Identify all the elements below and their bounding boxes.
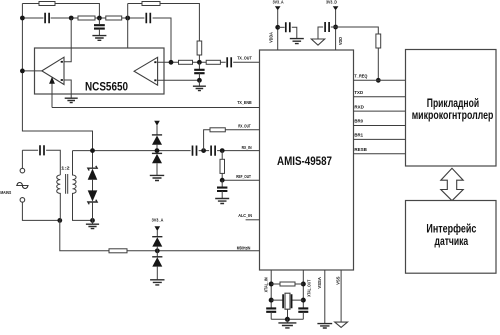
zener D2 (cathode down) [92, 180, 94, 191]
svg-text:NCS5650: NCS5650 [85, 82, 128, 94]
svg-text:VSSA: VSSA [317, 277, 322, 289]
svg-text:Интерфейс: Интерфейс [426, 224, 476, 236]
supply arrow 3V3_D [333, 6, 339, 10]
sensor interface box [406, 201, 497, 274]
wire row y18 [22, 18, 171, 62]
node dot secondary bottom / zener gnd [90, 218, 95, 223]
wire XTAL_IN [270, 270, 272, 308]
svg-text:REF_OUT: REF_OUT [236, 174, 251, 179]
resistor R11 (T_REQ pull-up) [376, 34, 381, 48]
crystal X1 [271, 299, 303, 301]
wire VSS [340, 270, 342, 322]
bidirectional arrow between boxes [441, 168, 463, 200]
NCS5650 box [35, 48, 165, 94]
node dot primary bottom [57, 218, 62, 223]
capacitor C9 (REF to gnd) [221, 180, 223, 187]
diode D5 (clamp up) [156, 231, 158, 237]
node dot rail/output [20, 69, 25, 74]
transformer T1 core [66, 174, 68, 194]
svg-text:микрокогнтроллер: микрокогнтроллер [412, 110, 494, 122]
supply arrow 3V3_A [275, 6, 281, 10]
wire T_REQ [354, 79, 406, 81]
resistor R7 (to TX coupling cap) [206, 60, 220, 64]
svg-text:BR0: BR0 [354, 119, 363, 124]
transformer T1 primary coil [57, 175, 61, 220]
ground at U1B bottom node [198, 80, 200, 86]
wire U1A output to rail [22, 70, 41, 72]
node dot row/opamp2 output [125, 16, 130, 21]
op-amp U1B (right) [134, 57, 158, 85]
svg-text:датчика: датчика [435, 236, 469, 248]
svg-text:TX_ENB: TX_ENB [237, 100, 252, 105]
wire feedback loop stage2 [128, 4, 200, 72]
ground triangle under VSS [335, 322, 348, 327]
node dot rail/RX [90, 148, 95, 153]
diode D6 (clamp down) [156, 251, 158, 257]
wire XTAL_OUT [302, 270, 304, 308]
wire VDD to pull-up [336, 27, 379, 34]
node dot rail/row [20, 16, 25, 21]
wire C4 to chip TX_OUT [233, 61, 259, 63]
wire BR0 [354, 125, 406, 127]
resistor R3 [106, 16, 122, 20]
node dot REF_OUT [220, 178, 225, 183]
ground under C10 [290, 39, 304, 44]
svg-text:ALC_IN: ALC_IN [238, 213, 252, 218]
wire U1B top input row [158, 61, 226, 63]
resistor R10 (M50Hz) [109, 249, 127, 253]
capacitor C7 (series RX) [193, 146, 197, 156]
node dot VDDA [275, 25, 280, 30]
capacitor C1 (series, row) [45, 13, 49, 23]
MAINS source terminal top [20, 168, 25, 173]
wire ALC_IN stub [246, 219, 260, 221]
wire VDD [335, 10, 337, 50]
node dots xtal top [269, 282, 274, 287]
capacitor C8 (series RX) [211, 146, 215, 156]
node dot REF tap [220, 148, 225, 153]
capacitor C12 (xtal left) [266, 308, 276, 311]
node dot row middle [97, 16, 102, 21]
capacitor C13 (xtal right) [298, 308, 308, 311]
wire MAINS bottom [22, 202, 59, 220]
node dot row/opamp1 input [69, 16, 74, 21]
transformer T1 secondary coil [73, 151, 93, 221]
capacitor C5 (node A to ground wire) [198, 62, 200, 69]
svg-text:3V3_D: 3V3_D [326, 0, 337, 5]
diode D4 (clamp down) [152, 152, 162, 154]
ground under D4 [150, 175, 164, 180]
node dot M50Hz clamp [155, 248, 160, 253]
wire left rail from op-amp U1A output down to transformer node [22, 4, 92, 151]
resistor R8 (RX_OUT) [210, 128, 225, 132]
ground under D6 [150, 280, 164, 285]
wire RX line [73, 150, 260, 152]
zener D1 (cathode up) [92, 151, 94, 168]
svg-text:XTAL_OUT: XTAL_OUT [306, 279, 311, 296]
node dots xtal bottom [269, 298, 274, 303]
wire feedback loop stage1 top [22, 4, 99, 19]
capacitor C3 to ground at middle node [98, 18, 100, 24]
resistor R6 (input to node A) [179, 60, 193, 64]
svg-text:VDD: VDD [338, 37, 343, 45]
wire U1B bottom input row [158, 79, 200, 81]
svg-text:MAINS: MAINS [0, 190, 11, 195]
node dot RX_OUT tap [201, 148, 206, 153]
node dot VDD [333, 25, 338, 30]
wire RXD [354, 110, 406, 112]
wire U1A top input tap [64, 18, 71, 62]
svg-text:TXD: TXD [354, 90, 363, 95]
svg-text:RX_OUT: RX_OUT [238, 124, 251, 129]
op-amp U1B input marks [154, 61, 156, 63]
resistor R12 (xtal feedback) [271, 283, 303, 285]
svg-text:RX_IN: RX_IN [242, 145, 253, 150]
svg-text:TX_OUT: TX_OUT [237, 56, 252, 61]
op-amp U1A input marks [61, 61, 63, 63]
capacitor C2 (stage2 feedback) [146, 13, 150, 23]
wire RX_OUT [204, 130, 260, 151]
node dot A (divider) [197, 60, 202, 65]
svg-text:Прикладной: Прикладной [427, 98, 479, 110]
node dot T_REQ [376, 78, 381, 83]
capacitor C10 (VDDA decoupling) [278, 26, 285, 28]
ground under VSSA [317, 324, 332, 328]
diode D3 (clamp up) [156, 125, 158, 135]
MAINS source terminal bottom [20, 198, 25, 203]
resistor R5 (vertical, stage2) [197, 41, 202, 55]
ground under NCS box [65, 98, 78, 102]
node dot xtal ground [285, 317, 290, 322]
svg-text:3V3_A: 3V3_A [152, 218, 164, 223]
wire xtal bottom rail [271, 318, 303, 320]
svg-text:M50HzIN: M50HzIN [237, 245, 251, 250]
ground under C9 [215, 199, 229, 204]
wire TX_ENB [52, 107, 260, 109]
wire U1A bottom input to ground [64, 80, 71, 98]
svg-text:VSS: VSS [336, 276, 341, 284]
ground under C3 [92, 36, 106, 41]
wire BR1 [354, 138, 406, 140]
ground triangle (digital) [311, 39, 324, 45]
microcontroller box [406, 50, 497, 167]
ground at transformer secondary [92, 220, 94, 224]
node dot U1B input [169, 60, 174, 65]
supply arrow clamp (RX line) [154, 121, 160, 126]
wire M50HzIN [60, 220, 260, 250]
resistor R2 [78, 16, 95, 20]
svg-text:BR1: BR1 [354, 133, 363, 138]
svg-text:1:2: 1:2 [61, 165, 70, 170]
resistor R1 (stage1 feedback) [39, 2, 55, 6]
wire VDDA [277, 10, 279, 50]
ground under xtal [286, 319, 288, 322]
svg-text:AMIS-49587: AMIS-49587 [277, 156, 332, 168]
capacitor C11 (VDD decoupling) [331, 26, 336, 28]
chip AMIS-49587 box [260, 50, 354, 270]
svg-text:RESB: RESB [354, 147, 367, 152]
svg-text:T_REQ: T_REQ [354, 73, 367, 78]
wire VSSA [324, 270, 326, 323]
supply arrow clamp (M50Hz) [155, 226, 161, 231]
wire TXD [354, 96, 406, 98]
svg-text:3V3_A: 3V3_A [273, 0, 284, 5]
capacitor C6 (mains coupling) [40, 145, 44, 155]
svg-text:RXD: RXD [354, 104, 364, 109]
svg-text:VDDA: VDDA [269, 32, 274, 43]
resistor R4 (stage2 feedback) [142, 2, 160, 6]
AC source symbol [16, 185, 28, 187]
resistor R9 (REF divider) [221, 151, 223, 160]
wire MAINS top to coupling cap [22, 150, 60, 175]
enable arrow into U1A [51, 82, 53, 108]
svg-text:XTAL_IN: XTAL_IN [264, 277, 269, 292]
op-amp U1A (left) [42, 57, 64, 84]
node dot bottom input/ground [197, 78, 202, 83]
wire RESB [354, 153, 406, 155]
node dot clamp/RX [155, 148, 160, 153]
capacitor C4 (series TX_OUT) [227, 57, 231, 67]
